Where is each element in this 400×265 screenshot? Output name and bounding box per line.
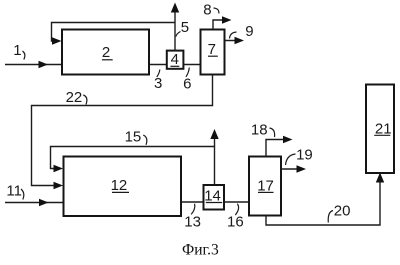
wire 9 out of block 7 right: [225, 40, 242, 42]
arrowhead wire 18: [283, 136, 293, 143]
svg-text:3: 3: [154, 75, 162, 92]
block 2: [62, 30, 149, 75]
block 7: [201, 30, 225, 75]
svg-text:22: 22: [66, 89, 83, 106]
arrowhead on wire 1: [39, 61, 49, 68]
svg-text:4: 4: [171, 51, 179, 68]
arrowhead wire 19: [297, 165, 307, 172]
wire 13: [181, 201, 204, 203]
wire 19 out of block 17 right: [281, 168, 303, 170]
wire 5 up from block 4: [174, 5, 176, 51]
wire 15 from block 14 up and back to block 12: [51, 147, 215, 186]
underline of label 21: [374, 134, 390, 136]
wire input 1: [5, 64, 62, 66]
block 12: [64, 157, 182, 217]
arrowhead wire 8: [222, 16, 232, 23]
svg-text:1: 1: [13, 42, 21, 59]
wire 18 out of block 17 top: [266, 140, 289, 157]
svg-text:15: 15: [125, 128, 142, 145]
svg-text:6: 6: [183, 76, 191, 93]
wire feedback into block 2: [52, 23, 176, 42]
leader hook for label 22: [83, 95, 87, 105]
underline of label 14: [206, 202, 222, 204]
leader hook for label 3: [157, 70, 160, 78]
arrowhead wire 20 into block 21: [376, 173, 384, 183]
arrowhead wire 22 into block 12: [54, 182, 64, 189]
wire input 11: [5, 202, 64, 204]
leader hook for label 20: [328, 211, 333, 223]
leader hook for label 5: [176, 32, 181, 37]
arrowhead wire 15 into block 12: [54, 165, 64, 172]
svg-text:7: 7: [208, 41, 216, 58]
svg-text:12: 12: [111, 177, 128, 194]
svg-text:16: 16: [227, 213, 244, 230]
block 21: [366, 85, 394, 174]
arrowhead wire 5: [171, 3, 179, 13]
svg-text:18: 18: [251, 122, 268, 139]
leader hook for label 18: [270, 128, 275, 137]
leader hook for label 11: [21, 189, 24, 200]
svg-text:13: 13: [184, 213, 201, 230]
wire from block 7 bottom to wire 22: [32, 75, 213, 186]
underline of label 2: [102, 59, 113, 61]
arrowhead wire 15 up: [210, 129, 218, 139]
leader hook for label 15: [143, 135, 147, 145]
underline of label 4: [170, 65, 179, 67]
leader hook for label 1: [23, 51, 25, 60]
svg-text:9: 9: [245, 23, 253, 40]
wire 16: [224, 201, 249, 203]
leader hook for label 9: [230, 32, 237, 39]
arrowhead on wire 11: [39, 199, 49, 206]
block 4: [167, 51, 184, 69]
svg-text:11: 11: [6, 182, 22, 199]
wire 15 up branch: [214, 132, 216, 147]
underline of label 17: [258, 191, 274, 193]
wire 20 from block 17 bottom to block 21: [266, 174, 380, 225]
leader hook for label 6: [186, 68, 189, 77]
svg-text:20: 20: [334, 202, 351, 219]
leader hook for label 13: [191, 204, 195, 215]
svg-text:19: 19: [296, 147, 313, 164]
arrowhead wire 9: [235, 37, 245, 44]
wire 6: [183, 64, 200, 66]
svg-text:2: 2: [102, 44, 110, 61]
leader hook for label 8: [214, 8, 219, 14]
block 17: [249, 157, 281, 216]
block 14: [204, 185, 225, 210]
leader hook for label 19: [286, 154, 296, 165]
wire 8 out of block 7 top: [213, 20, 228, 30]
svg-text:5: 5: [181, 19, 189, 36]
svg-text:8: 8: [203, 2, 211, 19]
leader hook for label 16: [235, 204, 238, 215]
underline of label 7: [208, 55, 218, 57]
underline of label 12: [112, 191, 129, 193]
wire 3: [149, 64, 167, 66]
svg-text:Фиг.3: Фиг.3: [182, 242, 219, 259]
arrowhead feedback into block 2: [52, 37, 62, 44]
